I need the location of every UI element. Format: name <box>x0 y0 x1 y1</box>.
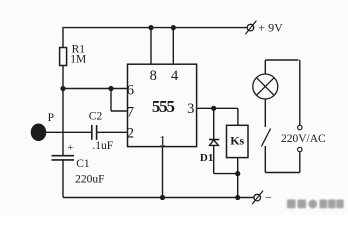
svg-text:6: 6 <box>127 83 134 99</box>
relay Ks box <box>227 125 249 157</box>
wire pin6 horizontal <box>63 88 128 90</box>
diode D1 cathode bar <box>209 139 219 141</box>
wire AC right lower <box>299 152 301 173</box>
svg-text:C1: C1 <box>76 158 90 170</box>
terminal minus circle <box>254 194 261 201</box>
AC terminal upper circle <box>298 125 302 129</box>
svg-text:P: P <box>48 112 54 124</box>
microphone P body <box>31 124 47 142</box>
svg-text:555: 555 <box>152 97 175 116</box>
wire Ks bottom to rail <box>237 158 239 198</box>
wire D1 top <box>213 108 215 139</box>
wire pin1 to bottom rail <box>162 147 164 198</box>
node dot R1/pin6 <box>60 86 65 91</box>
wire D1 to Ks bottom <box>214 173 238 175</box>
switch arm <box>261 129 270 147</box>
wire lamp loop bottom <box>265 172 300 174</box>
lamp circle <box>253 74 278 99</box>
wire pin8 to rail <box>150 28 152 65</box>
wire lamp top lead <box>264 60 266 74</box>
resistor R1 body <box>60 48 67 66</box>
wire C1 bottom to rail <box>62 160 64 198</box>
svg-text:−: − <box>265 190 272 204</box>
node dot pin1/rail <box>160 195 165 200</box>
svg-text:2: 2 <box>127 125 134 141</box>
svg-text:3: 3 <box>187 101 194 117</box>
node dot pin3/D1 <box>211 106 216 111</box>
AC terminal lower circle <box>298 147 302 151</box>
wire top +9V rail <box>63 27 247 29</box>
capacitor C1 plates <box>52 155 75 157</box>
wire pin4 to rail <box>172 28 174 65</box>
node dot pin7 branch <box>108 86 113 91</box>
wire bottom rail <box>63 197 254 199</box>
svg-text:.1uF: .1uF <box>92 140 113 152</box>
diode D1 triangle <box>210 140 219 146</box>
wire R1 bottom to C1 top <box>62 66 64 156</box>
wire pin3 horizontal <box>197 107 238 109</box>
svg-text:220uF: 220uF <box>75 174 104 186</box>
node dot pin4/rail <box>171 25 176 30</box>
svg-text:+: + <box>67 143 73 154</box>
node dot Ks/D1 <box>235 171 240 176</box>
wire AC right upper <box>299 60 301 125</box>
svg-text:Ks: Ks <box>230 133 244 147</box>
capacitor C2 plates <box>91 125 93 140</box>
wire lamp loop top <box>265 59 298 61</box>
svg-text:1M: 1M <box>70 54 86 66</box>
svg-text:220V/AC: 220V/AC <box>281 133 326 145</box>
node dot Ks/rail <box>235 195 240 200</box>
svg-text:D1: D1 <box>200 152 213 164</box>
wire pin7 branch vertical <box>110 89 112 112</box>
svg-text:C2: C2 <box>89 110 103 122</box>
wire lamp bottom to switch <box>264 99 266 127</box>
svg-text:1: 1 <box>159 133 166 149</box>
wire switch bottom <box>264 146 266 173</box>
svg-text:+ 9V: + 9V <box>258 21 283 35</box>
node dot pin8/rail <box>148 25 153 30</box>
wire left vertical top (rail to R1) <box>62 27 64 48</box>
op-amp U1 555 IC box <box>128 64 197 146</box>
wire microphone to C2 <box>45 131 92 133</box>
lamp X <box>257 78 274 95</box>
wire D1 bottom <box>213 145 215 173</box>
wire pin3 corner down to Ks <box>237 108 239 125</box>
wire pin7 horizontal <box>111 110 128 112</box>
svg-text:8: 8 <box>150 68 157 84</box>
watermark blobs <box>287 200 344 209</box>
svg-text:4: 4 <box>171 68 179 84</box>
svg-text:7: 7 <box>127 105 134 121</box>
wire C2 to pin2 <box>97 131 128 133</box>
terminal +9V circle <box>247 24 254 31</box>
